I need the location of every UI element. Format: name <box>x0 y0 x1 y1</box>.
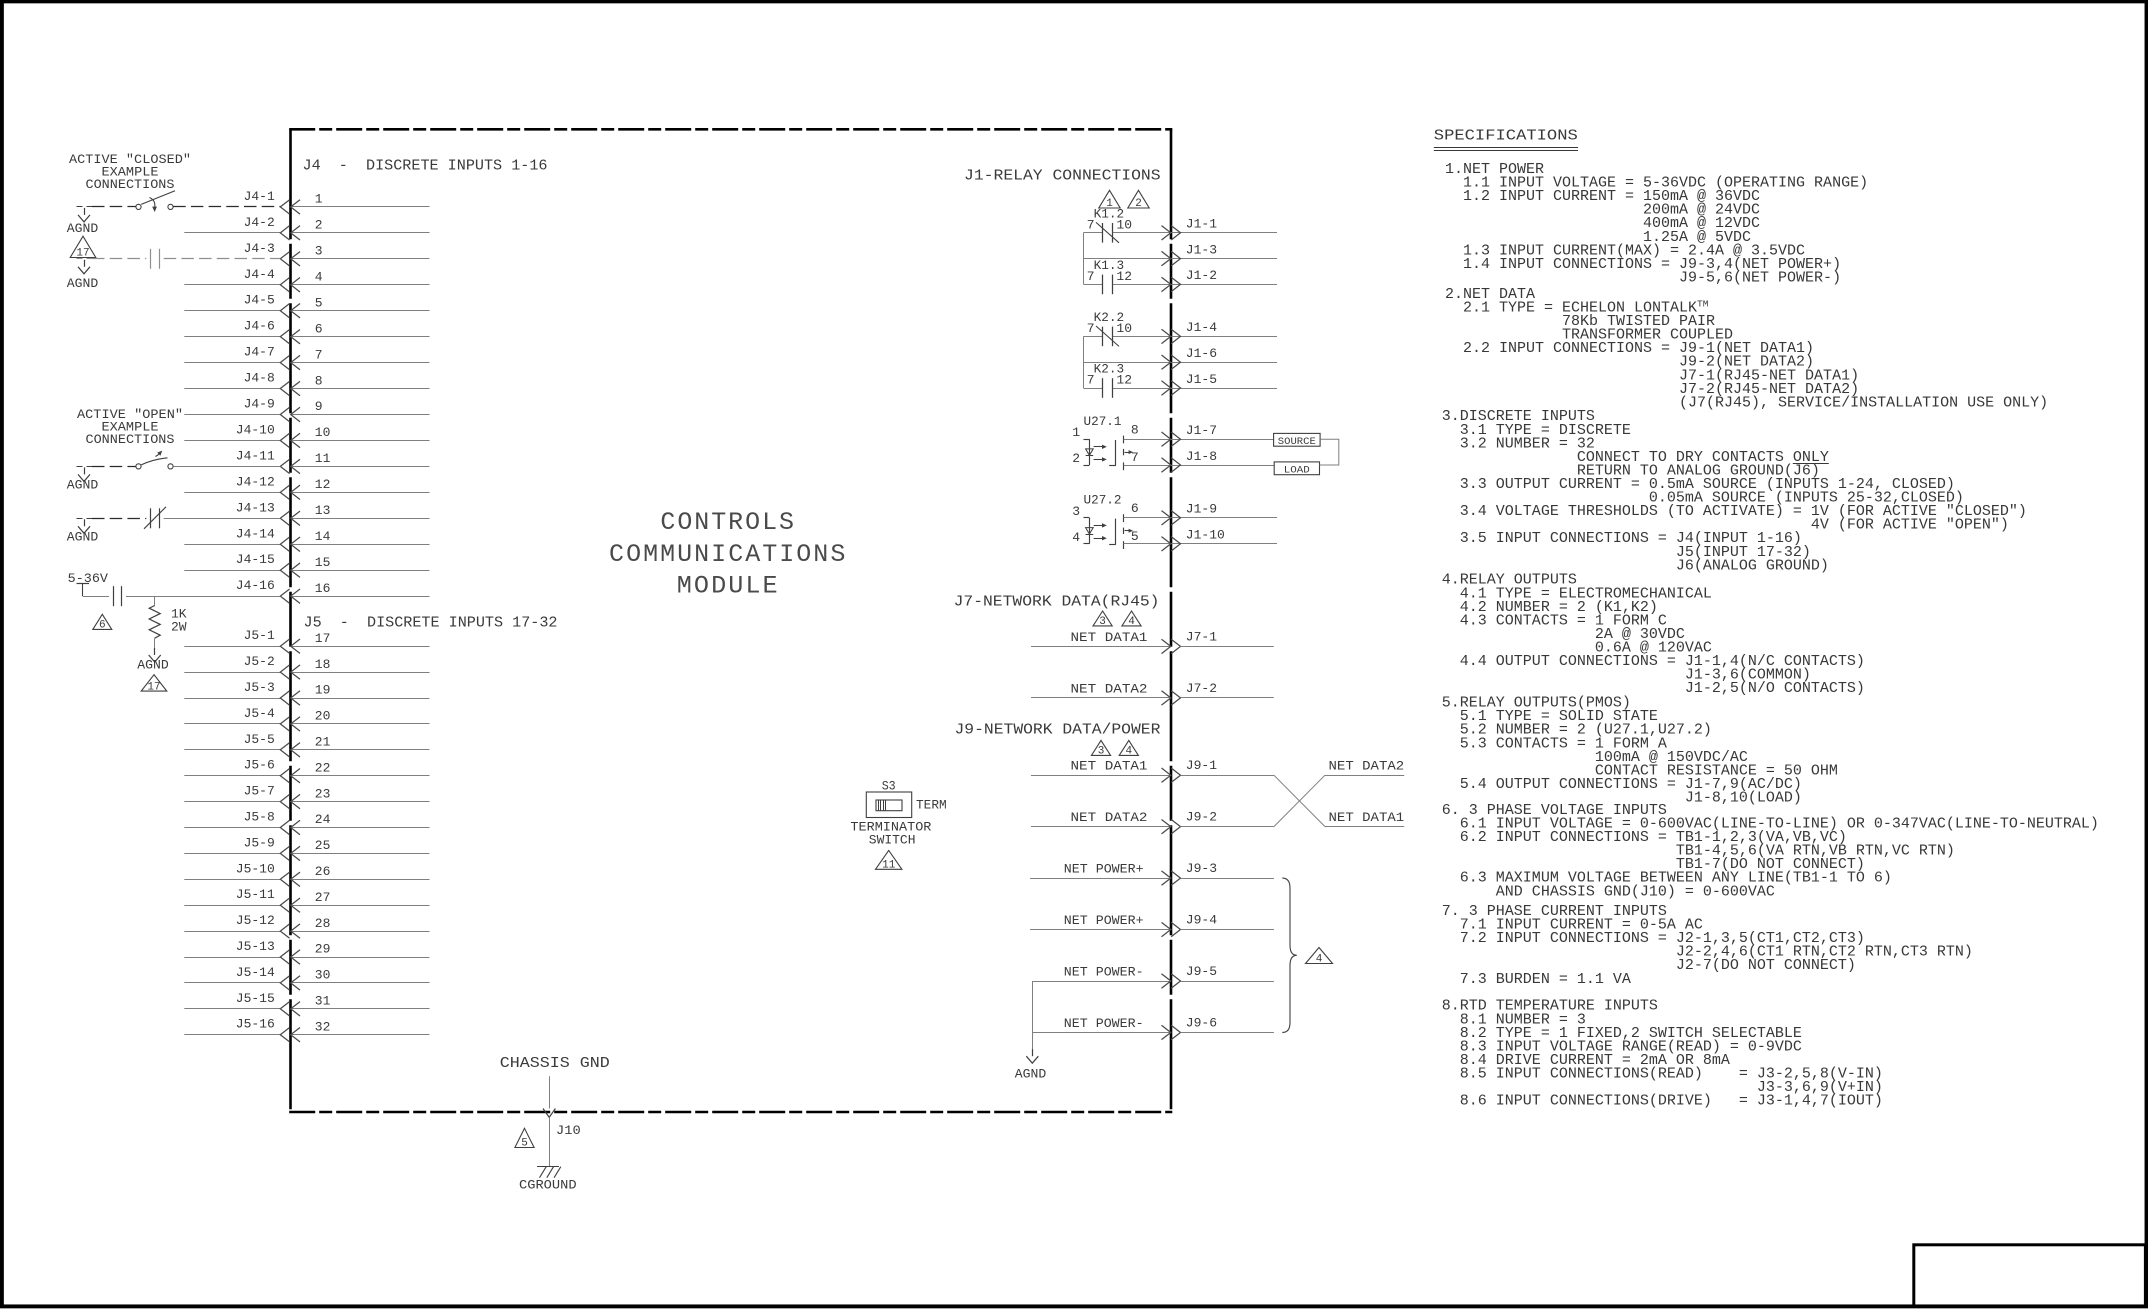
svg-text:J9-6: J9-6 <box>1186 1015 1217 1030</box>
svg-text:CGROUND: CGROUND <box>519 1178 577 1193</box>
wire (inside) <box>291 414 430 416</box>
connector pin J1-4 <box>1162 320 1218 343</box>
svg-text:J1-5: J1-5 <box>1186 372 1217 387</box>
spec section 8 RTD TEMPERATURE INPUTS <box>1442 998 1883 1110</box>
ground AGND (J4-11 example) <box>67 467 99 493</box>
svg-text:12: 12 <box>315 477 331 492</box>
connector pin J4-16 <box>236 578 430 603</box>
wire <box>184 492 280 494</box>
svg-text:J4-16: J4-16 <box>236 578 275 593</box>
svg-text:8: 8 <box>315 373 323 388</box>
svg-text:28: 28 <box>315 916 331 931</box>
svg-text:J1-7: J1-7 <box>1186 423 1217 438</box>
wire (inside) <box>291 284 430 286</box>
net NET DATA1 / connector pin J9-1 <box>1031 758 1274 782</box>
svg-text:J7-2: J7-2 <box>1186 681 1217 696</box>
note flag 2 <box>1128 190 1149 208</box>
svg-text:CONTROLS: CONTROLS <box>660 508 796 537</box>
svg-text:8.6 INPUT CONNECTIONS(DRIVE): 8.6 INPUT CONNECTIONS(DRIVE) = J3-1,4,7(… <box>1442 1093 1883 1110</box>
connector pin J1-8 <box>1162 449 1218 472</box>
wire <box>1032 981 1171 983</box>
svg-text:AGND: AGND <box>137 658 169 673</box>
wire (inside) <box>291 232 430 234</box>
svg-text:18: 18 <box>315 657 331 672</box>
wire <box>184 723 280 725</box>
wire <box>184 801 280 803</box>
svg-text:J1-3: J1-3 <box>1186 242 1217 257</box>
wire <box>184 827 280 829</box>
wire (inside) <box>291 388 430 390</box>
svg-text:7: 7 <box>1087 373 1095 388</box>
node LOAD <box>1274 462 1319 476</box>
svg-text:10: 10 <box>1116 218 1132 233</box>
wire (inside) <box>291 853 430 855</box>
svg-text:2: 2 <box>1135 198 1142 210</box>
relay contact K1.2 (N/C) pins 7-10 <box>1083 207 1277 243</box>
connector pin J5-14 <box>184 965 429 990</box>
svg-text:6: 6 <box>99 620 106 632</box>
connector pin J1-2 <box>1162 268 1218 291</box>
connector pin J1-7 <box>1162 423 1218 446</box>
wire (chassis gnd drop) <box>549 1076 551 1108</box>
svg-text:4: 4 <box>315 269 323 284</box>
svg-text:J9-1: J9-1 <box>1186 758 1217 773</box>
wire (inside) <box>291 801 430 803</box>
wire (inside) <box>291 362 430 364</box>
svg-text:22: 22 <box>315 760 331 775</box>
svg-text:NET DATA2: NET DATA2 <box>1329 759 1405 774</box>
svg-text:CHASSIS GND: CHASSIS GND <box>500 1056 610 1072</box>
wire <box>184 388 280 390</box>
capacitor (active closed example) <box>92 249 280 269</box>
svg-text:J1-9: J1-9 <box>1186 502 1217 517</box>
svg-text:15: 15 <box>315 555 331 570</box>
svg-text:J9-5: J9-5 <box>1186 964 1217 979</box>
connector pin J1-6 <box>1162 346 1218 369</box>
svg-text:J4-6: J4-6 <box>244 319 275 334</box>
svg-text:J7-1: J7-1 <box>1186 629 1217 644</box>
svg-text:NET POWER-: NET POWER- <box>1064 1016 1144 1031</box>
svg-text:J5-8: J5-8 <box>244 810 275 825</box>
wire <box>184 698 280 700</box>
note flag 3 <box>1093 611 1112 626</box>
wire <box>1031 775 1171 777</box>
node SOURCE <box>1274 433 1321 447</box>
connector pin J4-1 <box>244 189 430 214</box>
svg-text:3: 3 <box>1099 616 1106 628</box>
svg-text:3: 3 <box>1098 746 1105 758</box>
svg-text:J5-10: J5-10 <box>236 861 275 876</box>
svg-text:J5 - DISCRETE INPUTS 17-32: J5 - DISCRETE INPUTS 17-32 <box>304 615 558 631</box>
connector pin J5-11 <box>184 887 429 912</box>
wire <box>1031 826 1171 828</box>
svg-text:SPECIFICATIONS: SPECIFICATIONS <box>1434 129 1578 145</box>
wire <box>184 749 280 751</box>
wire <box>184 414 280 416</box>
svg-text:24: 24 <box>315 812 331 827</box>
connector pin J5-4 <box>184 706 429 731</box>
spec section 3 DISCRETE INPUTS <box>1442 408 2027 574</box>
connector pin J4-12 <box>184 474 429 499</box>
module boundary box (dashed) <box>289 128 1172 131</box>
spec section 5 RELAY OUTPUTS PMOS <box>1442 695 1838 807</box>
connector pin J4-7 <box>184 345 429 370</box>
brace (J9-3..J9-6 group) <box>1282 878 1297 1032</box>
wire <box>184 570 280 572</box>
svg-text:2W: 2W <box>171 620 187 635</box>
wire (inside) <box>291 310 430 312</box>
connector pin J4-9 <box>184 397 429 422</box>
connector pin J4-10 <box>184 422 429 447</box>
solid state relay U27.1 pins 1,2,8,7 <box>1072 414 1274 470</box>
svg-text:J9-NETWORK DATA/POWER: J9-NETWORK DATA/POWER <box>955 723 1161 739</box>
svg-text:27: 27 <box>315 890 331 905</box>
svg-text:17: 17 <box>315 631 331 646</box>
wire <box>1181 775 1274 777</box>
note flag 5 <box>515 1128 534 1147</box>
svg-text:29: 29 <box>315 942 331 957</box>
connector pin J4-2 <box>184 215 429 240</box>
svg-text:5: 5 <box>315 295 323 310</box>
svg-text:6: 6 <box>315 321 323 336</box>
connector pin J5-6 <box>184 758 429 783</box>
svg-text:9: 9 <box>315 399 323 414</box>
svg-text:2: 2 <box>1072 451 1080 466</box>
wire <box>184 310 280 312</box>
svg-text:7: 7 <box>1087 321 1095 336</box>
wire SOURCE to LOAD <box>1320 439 1339 465</box>
wire NET POWER- common (vertical) <box>1032 981 1034 1032</box>
connector pin J5-15 <box>184 991 429 1016</box>
wire <box>184 1008 280 1010</box>
wire (inside) <box>291 982 430 984</box>
svg-text:1: 1 <box>1072 425 1080 440</box>
underline ONLY <box>1793 463 1829 465</box>
svg-text:26: 26 <box>315 864 331 879</box>
wire <box>1181 646 1274 648</box>
capacitor (5-36V example) <box>114 586 122 606</box>
wire <box>1181 1032 1274 1034</box>
svg-text:NET POWER+: NET POWER+ <box>1064 913 1144 928</box>
wire <box>184 853 280 855</box>
relay contact K2.2 (N/C) pins 7-10 <box>1083 310 1277 347</box>
svg-text:NET DATA1: NET DATA1 <box>1071 630 1148 645</box>
wire <box>184 879 280 881</box>
wire <box>184 544 280 546</box>
connector pin J5-13 <box>184 939 429 964</box>
connector pin J5-5 <box>184 732 429 757</box>
connector pin J4-11 <box>236 448 430 473</box>
svg-text:NET POWER-: NET POWER- <box>1064 965 1144 980</box>
svg-text:J4-4: J4-4 <box>244 267 275 282</box>
svg-text:J4-14: J4-14 <box>236 526 275 541</box>
svg-text:31: 31 <box>315 994 331 1009</box>
wire <box>1181 878 1274 880</box>
wire (J4-11 to box) <box>173 466 280 468</box>
wire (inside) <box>291 672 430 674</box>
connector pin J4-14 <box>184 526 429 551</box>
wire J1-1/J1-3/J1-2 common (vertical) <box>1083 233 1085 285</box>
svg-text:5: 5 <box>521 1138 528 1150</box>
wire <box>1030 878 1171 880</box>
svg-text:NET DATA1: NET DATA1 <box>1329 810 1405 825</box>
ground AGND (J4-3 example) <box>67 259 99 291</box>
note flag 11 <box>876 850 902 869</box>
connector pin J5-9 <box>184 835 429 860</box>
svg-text:U27.1: U27.1 <box>1084 414 1122 429</box>
wire <box>184 440 280 442</box>
connector pin J1-3 <box>1162 242 1218 265</box>
connector pin J10 (arrow into box) <box>543 1109 581 1138</box>
svg-text:TM: TM <box>1697 298 1709 309</box>
svg-text:J1-4: J1-4 <box>1186 320 1217 335</box>
svg-text:J1-1: J1-1 <box>1186 217 1217 232</box>
connector pin J4-15 <box>184 552 429 577</box>
wire (inside) <box>291 957 430 959</box>
svg-text:TERM: TERM <box>916 798 947 813</box>
connector pin J4-4 <box>184 267 429 292</box>
svg-text:17: 17 <box>76 248 89 260</box>
svg-text:J1-2: J1-2 <box>1186 268 1217 283</box>
connector pin J5-10 <box>184 861 429 886</box>
svg-text:J1-8: J1-8 <box>1186 449 1217 464</box>
svg-text:J1-RELAY CONNECTIONS: J1-RELAY CONNECTIONS <box>964 169 1161 185</box>
svg-text:3: 3 <box>1072 504 1080 519</box>
chassis ground symbol CGROUND <box>519 1167 577 1193</box>
connector pin J4-5 <box>184 293 429 318</box>
svg-text:J4-3: J4-3 <box>244 241 275 256</box>
svg-text:32: 32 <box>315 1019 331 1034</box>
wire (inside) <box>291 775 430 777</box>
wire (to chassis ground symbol) <box>549 1117 551 1166</box>
svg-text:J5-7: J5-7 <box>244 784 275 799</box>
node flag 6 <box>93 614 112 629</box>
svg-text:J5-15: J5-15 <box>236 991 275 1006</box>
svg-text:LOAD: LOAD <box>1284 464 1310 476</box>
spec section 2 NET DATA <box>1445 286 2048 411</box>
svg-text:17: 17 <box>147 681 160 693</box>
wire <box>1032 1032 1171 1034</box>
power rail 5-36V <box>68 571 108 596</box>
svg-text:13: 13 <box>315 503 331 518</box>
spec section 4 RELAY OUTPUTS <box>1442 572 1865 697</box>
svg-text:U27.2: U27.2 <box>1084 493 1122 508</box>
svg-text:J5-14: J5-14 <box>236 965 275 980</box>
svg-text:CONNECTIONS: CONNECTIONS <box>86 432 175 447</box>
svg-text:NET DATA1: NET DATA1 <box>1071 759 1148 774</box>
svg-text:AGND: AGND <box>1015 1066 1047 1081</box>
wire <box>1181 697 1274 699</box>
wire (inside) <box>291 544 430 546</box>
note flag 4 <box>1122 611 1141 626</box>
svg-text:23: 23 <box>315 786 331 801</box>
wire (inside) <box>291 723 430 725</box>
node flag 17 (second) <box>141 675 167 691</box>
wire <box>1031 697 1171 699</box>
connector pin J5-3 <box>184 680 429 705</box>
svg-text:4: 4 <box>1125 746 1132 758</box>
connector pin J5-8 <box>184 810 429 835</box>
net NET DATA2 / connector pin J9-2 <box>1031 810 1274 834</box>
svg-text:4: 4 <box>1072 530 1080 545</box>
svg-text:AGND: AGND <box>67 478 99 493</box>
net NET POWER+ / connector pin J9-4 <box>1030 913 1274 937</box>
resistor 1K 2W <box>149 596 187 638</box>
svg-text:J4-15: J4-15 <box>236 552 275 567</box>
wire (inside) <box>291 1034 430 1036</box>
svg-text:J5-5: J5-5 <box>244 732 275 747</box>
note flag 4 (brace) <box>1306 948 1333 964</box>
wire J1-6 <box>1083 362 1277 364</box>
svg-text:2: 2 <box>315 218 323 233</box>
node flag 17 <box>70 236 96 260</box>
wire <box>184 931 280 933</box>
net NET POWER- / connector pin J9-5 <box>1032 964 1274 988</box>
spec section 6 3 PHASE VOLTAGE INPUTS <box>1442 802 2099 900</box>
svg-text:J5-6: J5-6 <box>244 758 275 773</box>
connector pin J5-12 <box>184 913 429 938</box>
svg-text:20: 20 <box>315 709 331 724</box>
wire (inside) <box>291 570 430 572</box>
svg-text:11: 11 <box>315 451 331 466</box>
svg-text:4: 4 <box>1128 616 1135 628</box>
svg-text:J10: J10 <box>556 1123 581 1138</box>
ground AGND (NET POWER-) <box>1015 1032 1047 1081</box>
svg-text:10: 10 <box>315 425 331 440</box>
svg-text:7: 7 <box>1087 218 1095 233</box>
connector pin J5-1 <box>184 628 429 653</box>
wire (inside) <box>291 440 430 442</box>
svg-text:NET DATA2: NET DATA2 <box>1071 681 1148 696</box>
svg-text:7: 7 <box>1087 269 1095 284</box>
relay contact K1.3 (N/O) pins 7-12 <box>1083 258 1277 294</box>
svg-text:3: 3 <box>315 244 323 259</box>
ground AGND (J4-1 example) <box>67 207 99 237</box>
svg-text:J5-16: J5-16 <box>236 1017 275 1032</box>
svg-text:J4-13: J4-13 <box>236 500 275 515</box>
wire (inside) <box>291 698 430 700</box>
svg-text:J1-6: J1-6 <box>1186 346 1217 361</box>
svg-text:8: 8 <box>1131 423 1139 438</box>
note flag 4 <box>1119 740 1138 755</box>
svg-text:J4-8: J4-8 <box>244 371 275 386</box>
wire J1-4/J1-6/J1-5 common (vertical) <box>1083 336 1085 388</box>
wire <box>1181 826 1274 828</box>
svg-text:CONNECTIONS: CONNECTIONS <box>86 177 175 192</box>
connector pin J5-2 <box>184 654 429 679</box>
svg-text:J9-4: J9-4 <box>1186 913 1217 928</box>
svg-text:J5-1: J5-1 <box>244 628 275 643</box>
wire <box>1181 981 1274 983</box>
solid state relay U27.2 pins 3,4,6,5 <box>1072 493 1277 549</box>
svg-text:J5-12: J5-12 <box>236 913 275 928</box>
wire (inside) <box>291 1008 430 1010</box>
svg-text:12: 12 <box>1116 269 1132 284</box>
connector pin J4-13 <box>236 500 430 525</box>
svg-text:7: 7 <box>315 347 323 362</box>
svg-text:NET POWER+: NET POWER+ <box>1064 862 1144 877</box>
wire (dashed to J4-1) <box>173 206 280 208</box>
svg-text:J5-11: J5-11 <box>236 887 275 902</box>
connector pin J4-8 <box>184 371 429 396</box>
svg-text:J4-2: J4-2 <box>244 215 275 230</box>
svg-text:14: 14 <box>315 529 331 544</box>
svg-text:J9-3: J9-3 <box>1186 861 1217 876</box>
svg-text:2.1 TYPE = ECHELON LONTALK: 2.1 TYPE = ECHELON LONTALK <box>1445 299 1697 316</box>
switch SW (active open example) <box>92 451 173 469</box>
svg-text:11: 11 <box>882 860 896 872</box>
wire (inside) <box>291 749 430 751</box>
svg-text:COMMUNICATIONS: COMMUNICATIONS <box>609 540 847 569</box>
svg-text:21: 21 <box>315 735 331 750</box>
wire (inside) <box>291 827 430 829</box>
svg-text:J9-5,6(NET POWER-): J9-5,6(NET POWER-) <box>1445 269 1841 286</box>
svg-text:J9-2: J9-2 <box>1186 810 1217 825</box>
svg-text:MODULE: MODULE <box>677 572 780 601</box>
svg-text:19: 19 <box>315 683 331 698</box>
net NET DATA2 / connector pin J7-2 <box>1031 681 1274 705</box>
svg-text:4: 4 <box>1316 954 1323 966</box>
wire (inside) <box>291 492 430 494</box>
wire <box>1030 929 1171 931</box>
svg-text:J4-12: J4-12 <box>236 474 275 489</box>
svg-text:S3: S3 <box>882 778 896 793</box>
svg-text:NET DATA2: NET DATA2 <box>1071 810 1148 825</box>
connector pin J1-10 <box>1162 528 1225 551</box>
wire (inside) <box>291 931 430 933</box>
net NET POWER- / connector pin J9-6 <box>1032 1015 1274 1039</box>
svg-text:AND CHASSIS GND(J10) = 0-600VA: AND CHASSIS GND(J10) = 0-600VAC <box>1442 883 1775 900</box>
wire (inside) <box>291 879 430 881</box>
connector pin J5-16 <box>184 1017 429 1042</box>
svg-text:J4-1: J4-1 <box>244 189 275 204</box>
svg-text:J5-4: J5-4 <box>244 706 275 721</box>
wire <box>184 646 280 648</box>
connector pin J1-1 <box>1162 217 1218 240</box>
net NET POWER+ / connector pin J9-3 <box>1030 861 1274 885</box>
wire (inside) <box>291 206 430 208</box>
wire (inside) <box>291 596 430 598</box>
svg-text:J1-10: J1-10 <box>1186 528 1225 543</box>
spec section 7 3 PHASE CURRENT INPUTS <box>1442 903 1973 988</box>
wire crossover NET DATA1/NET DATA2 <box>1274 759 1405 827</box>
connector pin J4-6 <box>184 319 429 344</box>
svg-text:AGND: AGND <box>67 276 99 291</box>
wire (inside) <box>291 905 430 907</box>
ground AGND (below resistor) <box>137 638 169 672</box>
connector pin J5-7 <box>184 784 429 809</box>
wire <box>184 362 280 364</box>
switch S3 TERMINATOR <box>850 778 946 847</box>
wire <box>184 672 280 674</box>
title block (empty) <box>1914 1245 2146 1307</box>
svg-text:J4-5: J4-5 <box>244 293 275 308</box>
note flag 3 <box>1091 740 1110 755</box>
net NET DATA1 / connector pin J7-1 <box>1031 629 1274 653</box>
svg-text:J4-10: J4-10 <box>236 422 275 437</box>
wire (inside) <box>291 336 430 338</box>
svg-text:SOURCE: SOURCE <box>1278 436 1316 448</box>
note flag 1 <box>1099 190 1120 208</box>
wire <box>184 775 280 777</box>
svg-text:6: 6 <box>1131 501 1139 516</box>
svg-text:J7-NETWORK DATA(RJ45): J7-NETWORK DATA(RJ45) <box>954 595 1160 611</box>
svg-text:J5-13: J5-13 <box>236 939 275 954</box>
connector pin J1-9 <box>1162 502 1218 525</box>
svg-text:J4-11: J4-11 <box>236 448 275 463</box>
spec section 1 NET POWER <box>1445 161 1868 286</box>
wire <box>184 957 280 959</box>
